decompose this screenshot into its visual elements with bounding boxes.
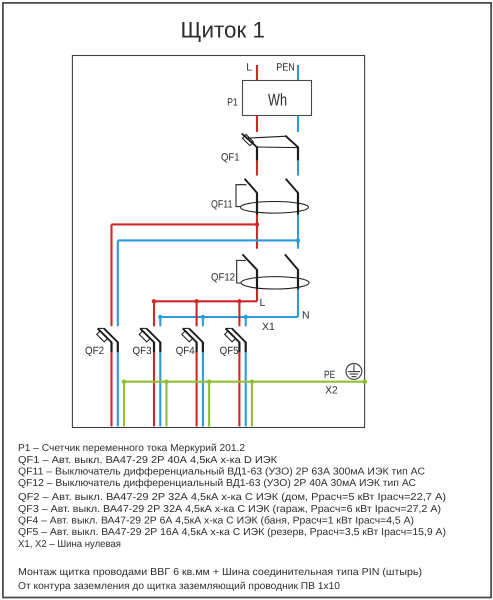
junction L after QF11: [255, 222, 259, 226]
svg-text:X1, X2 – Шина нулевая: X1, X2 – Шина нулевая: [18, 539, 121, 550]
PE bus X2: [123, 381, 365, 383]
wire L feed QF4: [196, 301, 198, 326]
wire PEN supply to meter: [297, 65, 299, 81]
breaker QF1 2-pole automatic: [242, 134, 298, 161]
panel enclosure frame: [72, 56, 364, 428]
svg-text:QF2 – Авт. выкл. ВА47-29 2Р 32: QF2 – Авт. выкл. ВА47-29 2Р 32А 4,5кА х-…: [18, 492, 446, 503]
wire N out QF3: [159, 352, 161, 426]
wire PE out QF4: [208, 382, 210, 427]
svg-text:L: L: [260, 297, 266, 309]
svg-text:QF3 – Авт. выкл. ВА47-29 2Р 32: QF3 – Авт. выкл. ВА47-29 2Р 32А 4,5кА х-…: [18, 504, 441, 515]
svg-text:X1: X1: [262, 321, 275, 333]
wire N out QF5: [245, 352, 247, 426]
N bus X1: [160, 316, 298, 318]
junction PE QF3: [164, 380, 168, 384]
junction N bus QF4: [201, 315, 205, 319]
svg-text:Wh: Wh: [268, 90, 287, 109]
wire L branch to QF2: [112, 223, 258, 225]
wire L meter to QF1: [256, 116, 258, 132]
wire L out QF5: [238, 352, 240, 426]
svg-text:QF4 – Авт. выкл. ВА47-29 2Р 6А: QF4 – Авт. выкл. ВА47-29 2Р 6А 4,5кА х-к…: [18, 516, 414, 527]
junction PE at frame: [362, 379, 367, 384]
wire L out QF3: [153, 352, 155, 426]
svg-text:P1 – Счетчик переменного тока: P1 – Счетчик переменного тока Меркурий 2…: [18, 443, 245, 454]
wire N feed QF4: [202, 317, 204, 326]
wire L QF1 to QF11: [256, 160, 258, 175]
RCD QF12 differential breaker: [237, 254, 309, 289]
wire N QF12 to N bus: [297, 289, 299, 317]
RCD QF11 differential breaker: [236, 179, 308, 215]
svg-text:Щиток 1: Щиток 1: [181, 17, 266, 42]
breaker QF5 2-pole automatic: [225, 328, 246, 352]
junction PE QF4: [207, 380, 211, 384]
wire L out QF4: [196, 352, 198, 426]
junction PE QF5: [250, 380, 254, 384]
svg-text:QF12: QF12: [211, 272, 235, 284]
svg-text:QF4: QF4: [176, 345, 195, 357]
svg-text:QF1: QF1: [221, 151, 240, 163]
L distribution bus: [154, 300, 257, 302]
wire PE out QF2: [123, 382, 125, 427]
junction PE QF2: [122, 380, 126, 384]
wire N QF1 to QF11: [297, 160, 299, 175]
svg-text:QF11: QF11: [211, 199, 233, 211]
svg-text:L: L: [246, 61, 252, 73]
junction N after QF11: [296, 238, 300, 242]
svg-text:QF3: QF3: [133, 345, 152, 357]
meter P1 box: [243, 81, 312, 116]
wire L feed QF3: [153, 301, 155, 326]
wire N out QF2: [117, 352, 119, 426]
svg-text:QF2: QF2: [85, 345, 104, 357]
wire L QF12 to L bus: [256, 289, 258, 301]
wire PEN meter to QF1: [297, 116, 299, 132]
wire N feed QF5: [245, 317, 247, 326]
junction L bus QF4: [194, 299, 198, 303]
svg-text:QF11 – Выключатель дифференциа: QF11 – Выключатель дифференциальный ВД1-…: [18, 467, 425, 478]
wire PE out QF5: [251, 382, 253, 427]
svg-text:QF1 – Авт. выкл. ВА47-29 2Р 40: QF1 – Авт. выкл. ВА47-29 2Р 40А 4,5кА х-…: [18, 455, 277, 466]
wire L feed QF5: [238, 301, 240, 326]
breaker QF3 2-pole automatic: [139, 328, 160, 352]
svg-text:X2: X2: [325, 384, 338, 396]
junction N bus QF3: [158, 315, 162, 319]
svg-text:PEN: PEN: [276, 61, 295, 73]
svg-text:QF5 – Авт. выкл. ВА47-29 2Р 16: QF5 – Авт. выкл. ВА47-29 2Р 16А 4,5кА х-…: [18, 527, 446, 538]
svg-text:QF12 – Выключатель дифференциа: QF12 – Выключатель дифференциальный ВД1-…: [18, 478, 416, 489]
ground earth symbol: [346, 364, 362, 380]
svg-text:Монтаж щитка проводами ВВГ 6 к: Монтаж щитка проводами ВВГ 6 кв.мм + Шин…: [18, 567, 422, 578]
junction L bus QF3: [152, 299, 156, 303]
wire N QF11 down to QF12: [297, 215, 299, 249]
svg-text:N: N: [302, 309, 310, 321]
wire L out QF2: [110, 352, 112, 426]
junction N bus QF5: [244, 315, 248, 319]
breaker QF2 2-pole automatic: [97, 328, 118, 352]
svg-text:P1: P1: [227, 97, 238, 109]
wire PE out QF3: [165, 382, 167, 427]
wire N out QF4: [202, 352, 204, 426]
wire N branch to QF2: [118, 239, 298, 241]
breaker QF4 2-pole automatic: [182, 328, 203, 352]
svg-text:PE: PE: [324, 369, 335, 381]
wire N feed QF3: [159, 317, 161, 326]
wire L QF11 down to QF12: [256, 215, 258, 249]
junction L bus QF5: [237, 299, 241, 303]
svg-text:От контура заземления до щитка: От контура заземления до щитка заземляющ…: [18, 581, 340, 592]
wire L supply to meter: [256, 65, 258, 81]
svg-text:QF5: QF5: [220, 345, 239, 357]
